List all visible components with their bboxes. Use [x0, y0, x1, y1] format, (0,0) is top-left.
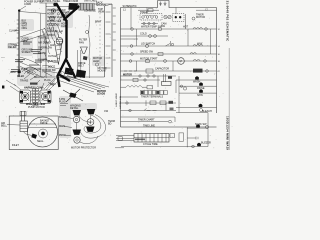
svg-text:MOTOR: MOTOR: [196, 16, 205, 19]
right connector shell: [40, 90, 51, 104]
right rail: [216, 8, 218, 114]
feed wires into connector: [6, 76, 59, 92]
hatched resistor row y87 left: [126, 85, 142, 87]
verticals between rungs: [137, 29, 211, 71]
extra rung y80 left: [121, 79, 161, 81]
short y39: [121, 36, 139, 46]
right border line: [228, 48, 230, 150]
box outline: [9, 116, 58, 150]
svg-text:RES VALUES: RES VALUES: [118, 96, 121, 110]
dashed guide vertical: [99, 9, 101, 70]
svg-text:PAN: PAN: [79, 42, 84, 45]
svg-text:MOTOR SW: MOTOR SW: [42, 69, 56, 72]
rung y103 left: [121, 102, 177, 104]
svg-text:31-9049 P02 SCHEMATIC: 31-9049 P02 SCHEMATIC: [226, 1, 230, 43]
svg-text:BELT: BELT: [78, 65, 84, 68]
svg-text:BRKT: BRKT: [95, 21, 102, 24]
right sub verticals: [187, 113, 208, 148]
vertical from right box: [185, 14, 187, 29]
rung y71: [121, 70, 217, 72]
coil arcs bottom-left: [22, 67, 38, 74]
agitator triangle: [54, 40, 62, 65]
relay box: [162, 82, 172, 86]
left connector shell: [20, 90, 31, 104]
svg-text:LEADS: LEADS: [97, 93, 106, 96]
svg-text:ELBOW: ELBOW: [48, 60, 58, 63]
tub wall verticals: [77, 50, 81, 78]
dashed timer box left: [140, 14, 162, 20]
svg-text:BD: BD: [108, 123, 112, 126]
svg-text:TIME LINE: TIME LINE: [143, 124, 155, 127]
border top with tab: [121, 1, 217, 8]
console dark band: [68, 3, 78, 10]
timer motor symbol: [192, 17, 195, 20]
small boxes right of table: [170, 134, 175, 138]
ticks between cabinet right edge lines: [106, 12, 111, 68]
funnel component: [81, 47, 88, 54]
svg-text:WASH: WASH: [193, 81, 200, 84]
timer contacts inside left box: [142, 16, 145, 19]
svg-text:CAPACITOR: CAPACITOR: [155, 68, 169, 71]
second contact row: [141, 23, 158, 25]
svg-text:ORG: ORG: [22, 27, 28, 30]
svg-text:BELT: BELT: [27, 72, 33, 75]
svg-text:TIMER KNOB: TIMER KNOB: [63, 0, 79, 3]
dashed timer box right: [173, 14, 185, 22]
connector pin row strip: [141, 91, 168, 95]
svg-text:MIXING VLV: MIXING VLV: [47, 20, 61, 23]
cabinet top edge: [46, 5, 78, 7]
svg-text:INLET: INLET: [12, 144, 19, 147]
scan smudge underlays: [7, 8, 105, 138]
svg-text:SEAL: SEAL: [37, 140, 44, 143]
svg-text:MOTOR START: MOTOR START: [140, 58, 158, 61]
rung y76 left: [121, 75, 177, 77]
rung y86 right: [179, 85, 217, 87]
rung y80 right: [176, 79, 217, 81]
extra hose arcs mid cabinet: [50, 22, 62, 52]
svg-text:PUMP MOTOR: PUMP MOTOR: [28, 106, 45, 109]
hoses curving bottom-left of cabinet: [42, 30, 50, 54]
svg-text:WATER VALVE: WATER VALVE: [48, 16, 65, 19]
left rail: [120, 8, 122, 128]
svg-text:TRANS: TRANS: [20, 80, 29, 83]
wire: leader label to pole: [20, 6, 26, 10]
big pump circle: [28, 117, 58, 147]
svg-text:WATER TEMP SW: WATER TEMP SW: [141, 26, 162, 29]
middle pin column: [33, 89, 39, 106]
rung y36 partial: [121, 35, 169, 37]
thick drain hose: lower split SE: [67, 60, 76, 78]
tab glyph: [159, 2, 167, 7]
bottom-left partial line: [115, 147, 124, 149]
thick drain hose: diagonal 2: [64, 6, 80, 20]
svg-text:AIR DOME: AIR DOME: [38, 42, 50, 45]
svg-text:183D1234 MINI WASHER: 183D1234 MINI WASHER: [226, 116, 230, 150]
wires radiating from console: [59, 10, 75, 21]
thick drain hose: vertical: [65, 20, 67, 58]
svg-text:WAX: WAX: [197, 43, 203, 46]
svg-text:HARNESS CONN: HARNESS CONN: [24, 87, 44, 90]
svg-text:TIMER: TIMER: [140, 11, 148, 14]
rung y29: [121, 28, 217, 30]
svg-text:CW: CW: [104, 110, 109, 113]
svg-text:RELIEF: RELIEF: [8, 46, 17, 49]
wavy harness wire: [89, 15, 90, 78]
X wires with dark center: [63, 89, 83, 102]
wire code ticks right of rail: [218, 29, 221, 73]
double vertical pair: [164, 74, 166, 82]
rung y112.7 right: [176, 112, 208, 114]
perspective panel diagonals: [59, 75, 109, 93]
svg-text:BLEACH: BLEACH: [202, 110, 212, 113]
rung y107.5 right: [176, 107, 217, 109]
rung y128.1 right: [187, 127, 208, 129]
winding trapezoid blobs: [73, 110, 82, 115]
hose arcs above agitator: [55, 24, 62, 39]
svg-text:CLAMP: CLAMP: [9, 30, 18, 33]
rung y46: [121, 45, 217, 47]
rung y54: [121, 53, 217, 55]
timer sequence table: [134, 134, 169, 143]
svg-text:CLIP: CLIP: [61, 25, 67, 28]
svg-text:TIMER CHART: TIMER CHART: [138, 118, 155, 121]
svg-text:SPIN: SPIN: [197, 94, 203, 97]
pipe above box: [22, 111, 25, 121]
svg-text:PRESSURE SW: PRESSURE SW: [48, 9, 67, 12]
svg-text:PLUG: PLUG: [44, 79, 51, 82]
svg-text:CORD: CORD: [24, 3, 31, 6]
thick belt diagonal: [59, 75, 70, 82]
svg-text:DETAIL: DETAIL: [70, 107, 79, 110]
svg-text:TIMER TERMINALS: TIMER TERMINALS: [141, 95, 164, 98]
circles between boxes: [164, 15, 167, 18]
svg-text:COLD: COLD: [140, 33, 147, 36]
rung y93 right: [179, 92, 217, 94]
svg-text:—–: —–: [1, 56, 5, 59]
svg-text:OHMS CHART: OHMS CHART: [115, 93, 118, 108]
svg-text:SOAK SW: SOAK SW: [195, 123, 207, 126]
svg-text:IDLER: IDLER: [17, 75, 24, 78]
pseudo text rows dense zone: [11, 42, 44, 73]
left sub rail: [176, 76, 179, 113]
wires into table left: [116, 136, 134, 141]
svg-text:LID SWITCH: LID SWITCH: [141, 43, 155, 46]
wire: power cord pole double line: [19, 10, 20, 77]
circles below windings: [73, 116, 79, 122]
svg-text:MOUNT: MOUNT: [98, 70, 107, 73]
svg-text:CONSOLE: CONSOLE: [84, 10, 96, 13]
svg-text:SCREW: SCREW: [22, 51, 32, 54]
rung y110.5 left: [121, 110, 177, 112]
svg-text:PLUG: PLUG: [59, 101, 66, 104]
thick drain hose: diagonal 1: [56, 3, 67, 21]
cabinet left edge: [45, 3, 47, 78]
svg-text:SW: SW: [161, 25, 166, 28]
rung y117 left: [121, 116, 176, 118]
svg-text:SPEED SW: SPEED SW: [140, 51, 154, 54]
svg-text:AGIT: AGIT: [50, 44, 56, 47]
rung y97 left: [121, 96, 139, 98]
svg-text:FILL HOSE: FILL HOSE: [48, 23, 61, 26]
scan noise: [2, 5, 232, 148]
svg-text:CYCLE TIME: CYCLE TIME: [143, 143, 158, 146]
cabinet right edge double: [105, 4, 113, 77]
svg-text:VIEW: VIEW: [98, 10, 105, 13]
node: pole top knob: [18, 9, 20, 11]
svg-text:MOTOR PROTECTOR: MOTOR PROTECTOR: [71, 147, 96, 150]
svg-text:SCHEMATIC: SCHEMATIC: [123, 5, 137, 8]
looping wires right side: [84, 115, 101, 133]
S-curve wire + elbow: [24, 132, 34, 137]
rung y138 right short: [187, 137, 196, 139]
rung y146.5 bottom: [121, 146, 208, 148]
wire: pole to cabinet top: [19, 12, 46, 14]
svg-text:BELL: BELL: [1, 125, 8, 128]
svg-text:ARM: ARM: [10, 71, 15, 74]
thick drain hose: lower split SW: [58, 58, 67, 87]
motor circle: [178, 58, 185, 65]
bottom dark components (motor): [65, 68, 74, 76]
cabinet inner-left line: [40, 14, 42, 78]
pump oval with hatch: [56, 37, 63, 44]
cabinet bottom edge: [46, 76, 105, 78]
svg-text:CONTROL PANEL: CONTROL PANEL: [40, 0, 61, 3]
svg-text:HOT: HOT: [183, 26, 189, 29]
svg-text:MOTOR: MOTOR: [123, 73, 132, 76]
water level switch rect: [20, 121, 28, 132]
svg-text:LEAD: LEAD: [93, 60, 100, 63]
full horizontal y127: [121, 126, 217, 128]
rung y61: [121, 60, 217, 62]
rung y121.6: [121, 121, 169, 123]
svg-text:SPLASH: SPLASH: [96, 4, 106, 7]
svg-text:DRIVE: DRIVE: [40, 122, 48, 125]
short rung top: [138, 9, 217, 11]
